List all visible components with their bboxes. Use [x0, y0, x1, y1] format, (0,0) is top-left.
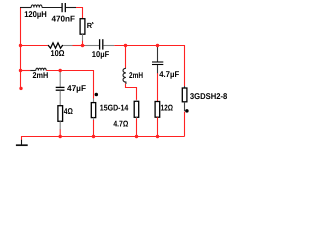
node dot 15GD terminal [95, 93, 99, 97]
resistor R4 4.7ohm box [134, 101, 139, 117]
lead R2 right [63, 45, 73, 47]
resistor R3 4ohm box [58, 106, 63, 122]
wire top right corner [76, 8, 83, 19]
wire middle center segment [73, 45, 86, 47]
lead U2 bottom [184, 102, 186, 111]
wire middle left segment [21, 45, 48, 47]
junction C4 / middle wire [156, 44, 159, 47]
junction R4 / bottom rail [135, 135, 138, 138]
lead C2 left [85, 45, 99, 47]
wire R4 to bottom [136, 119, 138, 137]
svg-text:47µF: 47µF [67, 83, 86, 93]
speaker U2 3GDSH2-8 box [182, 88, 187, 102]
lead C4 bottom [157, 65, 159, 74]
inductor L1 120uH [20, 5, 62, 8]
wire left rail [20, 8, 22, 89]
lead R3 bottom [59, 121, 61, 130]
junction R5 / bottom rail [156, 135, 159, 138]
wire branch y=70.8 right [46, 71, 93, 99]
lead U1 bottom [93, 118, 95, 121]
resistor R' box [80, 19, 85, 35]
svg-text:2mH: 2mH [129, 70, 143, 80]
lead C1 right [66, 7, 76, 9]
inductor L3 2mH vertical [123, 68, 126, 84]
capacitor C3 47uF [56, 87, 65, 90]
wire U1 to bottom [93, 120, 95, 137]
wire C4 to 12ohm [157, 73, 159, 101]
lead U1 top [93, 98, 95, 102]
lead C4 top [157, 46, 159, 62]
wire bottom rail [22, 137, 185, 141]
junction C3 / branch wire [59, 69, 62, 72]
wire 2mH vert top [125, 46, 127, 69]
wire 12ohm to bottom [157, 117, 159, 136]
wire R' to middle [82, 41, 84, 46]
lead R4 joins [136, 100, 138, 119]
svg-text:470nF: 470nF [52, 14, 76, 24]
junction L3 / middle wire [124, 44, 127, 47]
capacitor C1 470nF [62, 3, 65, 12]
speaker U1 15GD-14 box [91, 103, 95, 118]
svg-text:4.7µF: 4.7µF [159, 69, 179, 79]
wire U2 to bottom [184, 112, 186, 137]
wire middle right segment [114, 46, 184, 87]
lead R' bottom [82, 34, 84, 41]
resistor R5 12ohm box [155, 102, 160, 118]
inductor L2 2mH horizontal [30, 68, 46, 70]
capacitor C2 10uF [100, 39, 103, 49]
wire branch y=70.8 left [21, 70, 31, 72]
lead C3 bottom [59, 91, 61, 106]
resistor R2 10ohm zigzag [48, 43, 63, 48]
lead U2 top [184, 86, 186, 88]
svg-text:3GDSH2-8: 3GDSH2-8 [190, 91, 228, 101]
svg-text:12Ω: 12Ω [161, 103, 174, 113]
lead C3 top [59, 71, 61, 88]
node left rail endpoint [19, 87, 22, 90]
capacitor C4 4.7uF [152, 62, 163, 65]
svg-text:R: R [87, 21, 93, 30]
junction R3 / bottom rail [59, 135, 62, 138]
svg-text:2mH: 2mH [33, 70, 49, 80]
junction left rail / branch wire [19, 69, 22, 72]
svg-text:10µF: 10µF [92, 49, 109, 59]
svg-text:4.7Ω: 4.7Ω [113, 119, 128, 129]
junction U1 / bottom rail [92, 135, 95, 138]
svg-text:15GD-14: 15GD-14 [100, 102, 129, 112]
svg-text:120µH: 120µH [24, 9, 47, 19]
ground [16, 140, 28, 145]
junction R' / middle wire [81, 44, 84, 47]
wire R3 to bottom [59, 130, 61, 137]
junction left rail / middle wire [19, 44, 22, 47]
svg-text:4Ω: 4Ω [64, 106, 73, 116]
svg-text:10Ω: 10Ω [51, 48, 65, 58]
lead C2 right [103, 45, 114, 47]
node dot U2 terminal [185, 109, 189, 113]
wire L3 to 4.7ohm [126, 84, 137, 100]
